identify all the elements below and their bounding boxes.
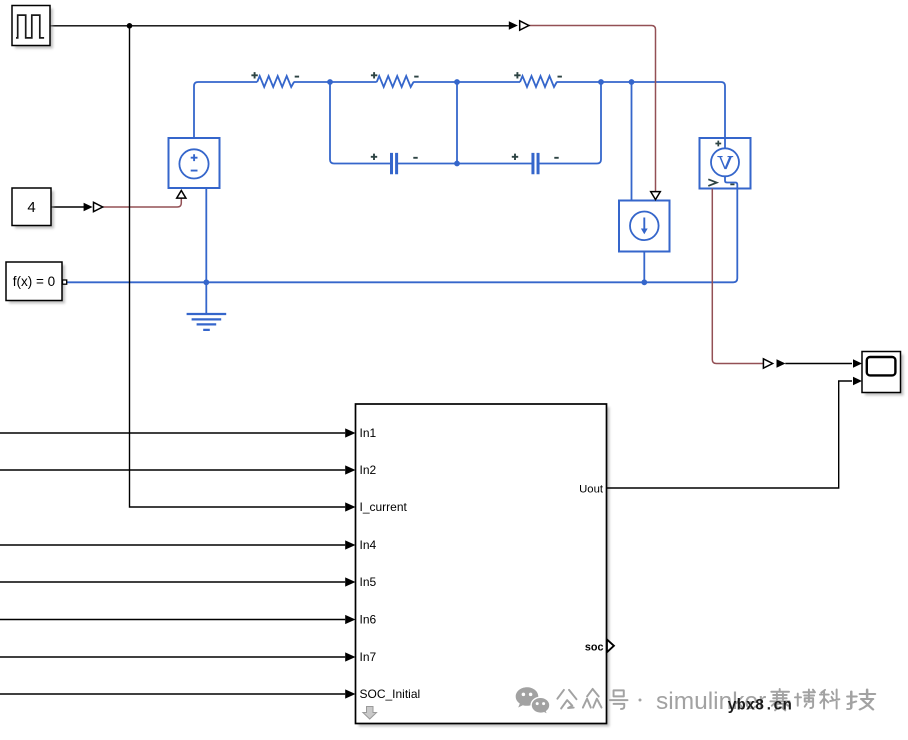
svg-text:In5: In5	[360, 575, 377, 589]
svg-text:In1: In1	[360, 426, 377, 440]
svg-text:4: 4	[27, 199, 35, 216]
svg-text:In4: In4	[360, 538, 377, 552]
svg-text:soc: soc	[585, 642, 604, 654]
svg-text:In7: In7	[360, 650, 377, 664]
svg-text:In2: In2	[360, 463, 377, 477]
svg-text:Uout: Uout	[579, 483, 604, 495]
svg-text:In6: In6	[360, 613, 377, 627]
svg-text:SOC_Initial: SOC_Initial	[360, 687, 421, 701]
svg-text:I_current: I_current	[360, 500, 408, 514]
svg-text:f(x) = 0: f(x) = 0	[13, 274, 55, 289]
svg-text:ybx8.cn: ybx8.cn	[728, 697, 792, 715]
